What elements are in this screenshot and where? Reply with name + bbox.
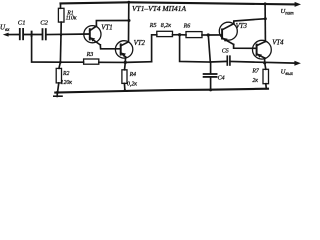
svg-text:R5: R5 — [149, 23, 157, 29]
resistor R4 — [122, 62, 127, 90]
svg-text:VT1–VT4 МП41А: VT1–VT4 МП41А — [132, 6, 187, 13]
svg-text:C4: C4 — [218, 74, 225, 81]
node top rail arrow Upit — [295, 2, 301, 7]
lower bus wire left of R3 — [60, 61, 83, 63]
svg-text:C5: C5 — [222, 48, 229, 54]
wire C1 to C2 — [24, 34, 42, 36]
wire R3 to VT2 emitter node to R5 riser — [99, 61, 152, 64]
resistor R2 — [56, 62, 61, 92]
resistor R3 — [84, 59, 99, 64]
bottom rail — [55, 89, 268, 93]
node junction VT1 collector to rail drop — [128, 19, 131, 22]
resistor R1 — [58, 3, 64, 35]
svg-text:R3: R3 — [86, 52, 94, 58]
svg-text:VT1: VT1 — [101, 24, 112, 31]
node R2 junction — [59, 61, 62, 64]
svg-text:Uвх: Uвх — [0, 24, 10, 34]
node R4 ground junction — [124, 89, 127, 92]
wire C4 node to C5 — [210, 60, 226, 63]
svg-text:2к: 2к — [252, 78, 258, 84]
wire VT3 emitter to VT4 base — [234, 44, 257, 48]
node C4 ground junction — [209, 88, 212, 91]
node R6 C4 junction — [207, 33, 210, 36]
node output arrow Uvyh — [294, 61, 301, 66]
node output junction — [263, 61, 266, 64]
node rail junction — [127, 1, 130, 4]
svg-text:VT2: VT2 — [134, 40, 146, 47]
wire C2 to VT1 base — [47, 33, 90, 36]
svg-text:R7: R7 — [251, 68, 260, 74]
svg-text:R6: R6 — [183, 24, 191, 30]
capacitor C1 — [20, 29, 23, 39]
node R5 R6 junction — [178, 33, 181, 36]
ground stub — [54, 92, 62, 96]
wire VT4 collector riser — [264, 4, 266, 42]
capacitor C2 — [43, 29, 46, 39]
svg-text:R2: R2 — [62, 71, 70, 77]
wire rail drop to VT2 collector — [128, 2, 130, 42]
svg-text:Uпит: Uпит — [281, 8, 295, 17]
top rail — [61, 2, 296, 4]
svg-text:R4: R4 — [129, 71, 137, 78]
wire R6 to VT3 base — [208, 34, 221, 36]
resistor R7 — [263, 63, 269, 89]
wire VT3 collector up right — [234, 19, 265, 24]
svg-text:8,2к: 8,2к — [161, 23, 172, 29]
wire VT2 emitter down — [124, 57, 126, 63]
wire junction down and right to C4 node — [180, 35, 211, 62]
node VT4 collector junction — [264, 17, 267, 20]
node rail junction right — [264, 2, 267, 5]
wire riser to R5 — [152, 35, 157, 62]
wire node A down — [32, 35, 61, 63]
wire C4 node down — [208, 35, 210, 62]
svg-text:C2: C2 — [40, 20, 48, 27]
svg-text:VT3: VT3 — [236, 23, 248, 30]
transistor VT4 — [253, 40, 272, 59]
svg-text:C1: C1 — [18, 20, 26, 27]
resistor R5 — [157, 31, 180, 36]
transistor VT1 — [84, 26, 101, 45]
transistor VT3 — [219, 22, 237, 44]
svg-text:120к: 120к — [61, 80, 73, 86]
node Uvx input arrow — [3, 33, 19, 37]
node VT2 emitter junction — [124, 61, 127, 64]
svg-text:VT4: VT4 — [272, 40, 284, 47]
transistor VT2 — [115, 41, 132, 58]
resistor R6 — [180, 32, 209, 38]
node R2 ground junction — [56, 91, 59, 94]
node A junction — [31, 32, 33, 36]
wire VT4 emitter down to output — [264, 58, 266, 63]
svg-text:Uвых: Uвых — [281, 69, 294, 78]
wire C5 to output arrow — [231, 62, 295, 64]
capacitor C5 — [227, 56, 230, 65]
wire VT1 collector up and right — [96, 21, 128, 27]
wire node C down to lower bus — [59, 35, 62, 62]
wire VT1 emitter to VT2 base — [100, 45, 120, 49]
node C junction — [60, 34, 62, 36]
capacitor C4 — [204, 62, 217, 90]
svg-text:110к: 110к — [66, 16, 77, 22]
svg-text:0,2к: 0,2к — [127, 81, 137, 87]
